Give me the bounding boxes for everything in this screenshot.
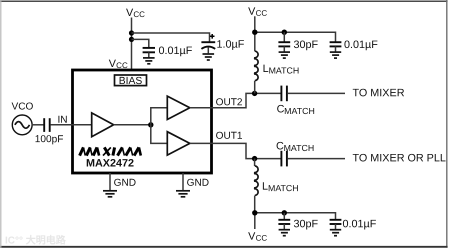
capacitor C_MATCH upper: [281, 86, 287, 102]
wire A2 to OUT2 pin: [190, 107, 212, 109]
wire VCO to C3: [32, 124, 44, 126]
svg-text:OUT2: OUT2: [216, 97, 243, 108]
svg-text:IN: IN: [57, 115, 67, 126]
node VCC rail junction: [252, 30, 257, 35]
svg-text:VCO: VCO: [11, 101, 33, 112]
value label C_MATCH upper: [277, 103, 315, 116]
capacitor C7 0.01uF bottom: [330, 220, 342, 230]
svg-text:100pF: 100pF: [35, 134, 64, 145]
svg-text:CC: CC: [256, 234, 268, 243]
source VCO sine generator: [12, 115, 32, 135]
ground below 1.0uF: [203, 54, 215, 60]
power VCC label bottom: [248, 231, 267, 243]
wire C3 to IN pin: [51, 124, 92, 126]
node OUT2 junction: [252, 91, 257, 96]
capacitor C6 30pF bottom: [278, 213, 290, 230]
wire VCC bottom stub: [254, 213, 256, 229]
ground symbol GND right: [176, 191, 190, 197]
value label L_MATCH lower: [262, 181, 299, 194]
wire C_MATCH upper to mixer: [288, 92, 345, 94]
wire A1 output to split node: [114, 124, 151, 126]
capacitor C1 0.01uF: [143, 48, 155, 58]
pin box BIAS: [115, 75, 147, 87]
node junction dot VCC/1.0uF: [129, 30, 134, 35]
svg-text:CC: CC: [133, 10, 145, 19]
svg-text:30pF: 30pF: [293, 218, 318, 230]
capacitor C_MATCH lower: [281, 151, 287, 167]
node 30pF junction bottom: [282, 210, 287, 215]
capacitor C4 30pF top: [278, 32, 290, 52]
ground symbol GND left: [103, 191, 117, 197]
wire VCC top-left vertical to BIAS pin: [131, 18, 133, 76]
svg-text:GND: GND: [114, 178, 136, 189]
ground below C4: [279, 52, 290, 58]
svg-text:MATCH: MATCH: [268, 183, 299, 193]
ground below C6: [279, 230, 290, 236]
logo MAXIM: [80, 147, 141, 155]
op-amp A2 upper output buffer: [167, 96, 190, 119]
wire C_MATCH lower to mixer/pll: [288, 158, 345, 160]
wire OUT2 net: [212, 93, 282, 107]
svg-text:CC: CC: [256, 9, 268, 18]
inductor L_MATCH upper: [255, 51, 258, 80]
svg-text:0.01µF: 0.01µF: [158, 45, 192, 57]
ground below C7: [330, 230, 341, 236]
value label C_MATCH lower: [276, 140, 314, 153]
node junction dot VCC/0.01uF: [129, 37, 134, 42]
svg-text:TO MIXER: TO MIXER: [352, 87, 404, 99]
wire VCC top-right rail: [255, 32, 336, 42]
svg-text:MAX2472: MAX2472: [86, 157, 134, 169]
ground below C1: [143, 58, 155, 64]
inductor L_MATCH lower: [255, 159, 259, 213]
svg-text:IC°° 大明电路: IC°° 大明电路: [5, 233, 67, 246]
capacitor C5 0.01uF top-right: [330, 42, 342, 52]
value label L_MATCH upper: [263, 63, 300, 76]
wire VCC to 1.0uF cap: [132, 33, 210, 42]
svg-text:TO MIXER OR PLL: TO MIXER OR PLL: [352, 152, 445, 164]
power VCC label top-left: [126, 7, 145, 19]
op-amp A1 input buffer: [92, 113, 114, 137]
pin label VCC at BIAS: [109, 58, 128, 70]
op-amp A3 lower output buffer: [167, 132, 190, 155]
pin GND left: [109, 173, 111, 190]
node 30pF junction top: [282, 30, 287, 35]
node VCC bottom junction: [252, 210, 257, 215]
ground below C5: [330, 52, 341, 58]
svg-text:30pF: 30pF: [293, 39, 318, 51]
IC U1 MAX2472 package body: [73, 70, 212, 173]
svg-text:BIAS: BIAS: [119, 76, 143, 87]
wire A3 to OUT1 pin: [190, 142, 212, 144]
wire VCC top-right vertical: [254, 16, 256, 51]
svg-text:MATCH: MATCH: [269, 65, 300, 75]
svg-text:OUT1: OUT1: [216, 131, 243, 142]
capacitor C3 100pF: [44, 118, 50, 132]
capacitor C2 1.0uF polarized: [201, 34, 215, 53]
wire VCC bottom rail: [255, 213, 336, 220]
wire L_MATCH upper to OUT2 node: [254, 81, 256, 94]
svg-text:MATCH: MATCH: [284, 143, 315, 153]
wire split to A3 input: [151, 125, 168, 144]
power VCC label top-right: [248, 6, 267, 18]
wire VCC to 0.01uF cap top-left: [132, 39, 149, 47]
svg-text:1.0µF: 1.0µF: [216, 39, 244, 51]
svg-text:0.01µF: 0.01µF: [342, 218, 376, 230]
svg-text:GND: GND: [187, 178, 209, 189]
svg-text:0.01µF: 0.01µF: [344, 39, 378, 51]
wire OUT1 net: [212, 143, 282, 158]
node OUT1 junction: [252, 156, 257, 161]
node split junction: [148, 122, 153, 127]
pin GND right: [182, 173, 184, 190]
wire split to A2 input: [151, 108, 168, 125]
svg-text:MATCH: MATCH: [284, 106, 315, 116]
